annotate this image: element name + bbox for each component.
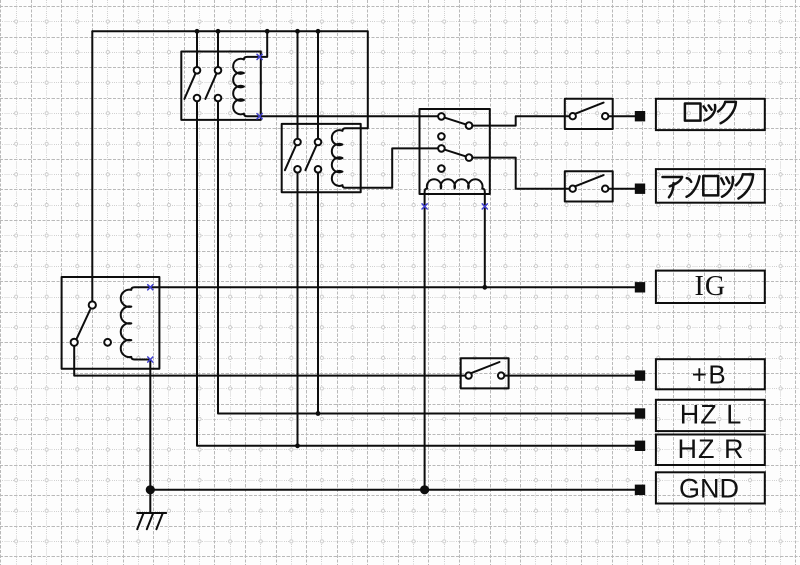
svg-text:IG: IG: [695, 271, 727, 302]
svg-text:+B: +B: [692, 359, 728, 389]
svg-text:HZ L: HZ L: [680, 400, 743, 430]
svg-text:HZ R: HZ R: [678, 434, 745, 464]
svg-text:GND: GND: [679, 474, 739, 504]
